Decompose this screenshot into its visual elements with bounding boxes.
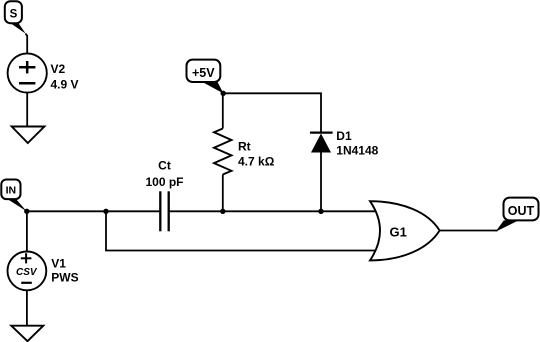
wire: capacitor to OR-gate top input — [169, 210, 377, 212]
wire: V2 bottom to ground — [26, 93, 28, 127]
wire: resistor bottom to main wire — [222, 175, 224, 212]
junction dot resistor foot — [220, 209, 225, 214]
svg-text:D1: D1 — [336, 129, 352, 143]
wire: +5V rail to diode top — [223, 93, 321, 132]
svg-text:G1: G1 — [390, 224, 407, 239]
svg-text:V2: V2 — [51, 62, 66, 76]
OR gate G1 — [370, 201, 440, 260]
svg-text:V1: V1 — [51, 256, 66, 270]
wire: IN node down to V1 — [26, 211, 28, 251]
svg-text:OUT: OUT — [508, 204, 535, 218]
svg-text:Ct: Ct — [158, 158, 171, 172]
wire: V1 bottom to ground — [26, 290, 28, 326]
wire: main horizontal IN to capacitor — [27, 210, 161, 212]
ground (under V1) — [11, 326, 43, 342]
capacitor Ct 100 pF — [145, 158, 183, 231]
ground (under V2) — [12, 127, 45, 144]
resistor Rt 4.7 kOhm — [214, 129, 275, 175]
wire: lower branch from node to OR-gate bottom input — [106, 211, 377, 250]
junction dot diode foot — [318, 209, 323, 214]
wire: diode bottom to main wire — [320, 153, 322, 212]
node IN — [1, 180, 26, 212]
node OUT — [496, 198, 539, 232]
svg-text:PWS: PWS — [51, 271, 78, 285]
node S — [5, 1, 26, 34]
junction dot IN node — [24, 209, 29, 214]
svg-text:Rt: Rt — [238, 140, 251, 154]
svg-text:4.7 kΩ: 4.7 kΩ — [238, 155, 275, 169]
svg-text:+5V: +5V — [192, 66, 215, 80]
wire: OR-gate output to OUT flag — [440, 230, 498, 232]
svg-text:4.9 V: 4.9 V — [51, 77, 79, 91]
voltage source V2 — [8, 53, 79, 92]
svg-text:IN: IN — [6, 184, 17, 196]
diode D1 1N4148 — [310, 129, 379, 158]
svg-text:S: S — [10, 9, 18, 21]
svg-text:100 pF: 100 pF — [145, 175, 183, 189]
wire: S flag to V2 top — [26, 34, 28, 55]
junction dot at +5V node — [221, 91, 226, 96]
svg-text:1N4148: 1N4148 — [336, 144, 378, 158]
voltage source V1 — [8, 252, 79, 291]
junction dot lower-branch tap — [103, 209, 108, 214]
node +5V — [187, 60, 224, 94]
svg-text:CSV: CSV — [16, 267, 38, 278]
wire: +5V node down to resistor — [222, 93, 224, 128]
